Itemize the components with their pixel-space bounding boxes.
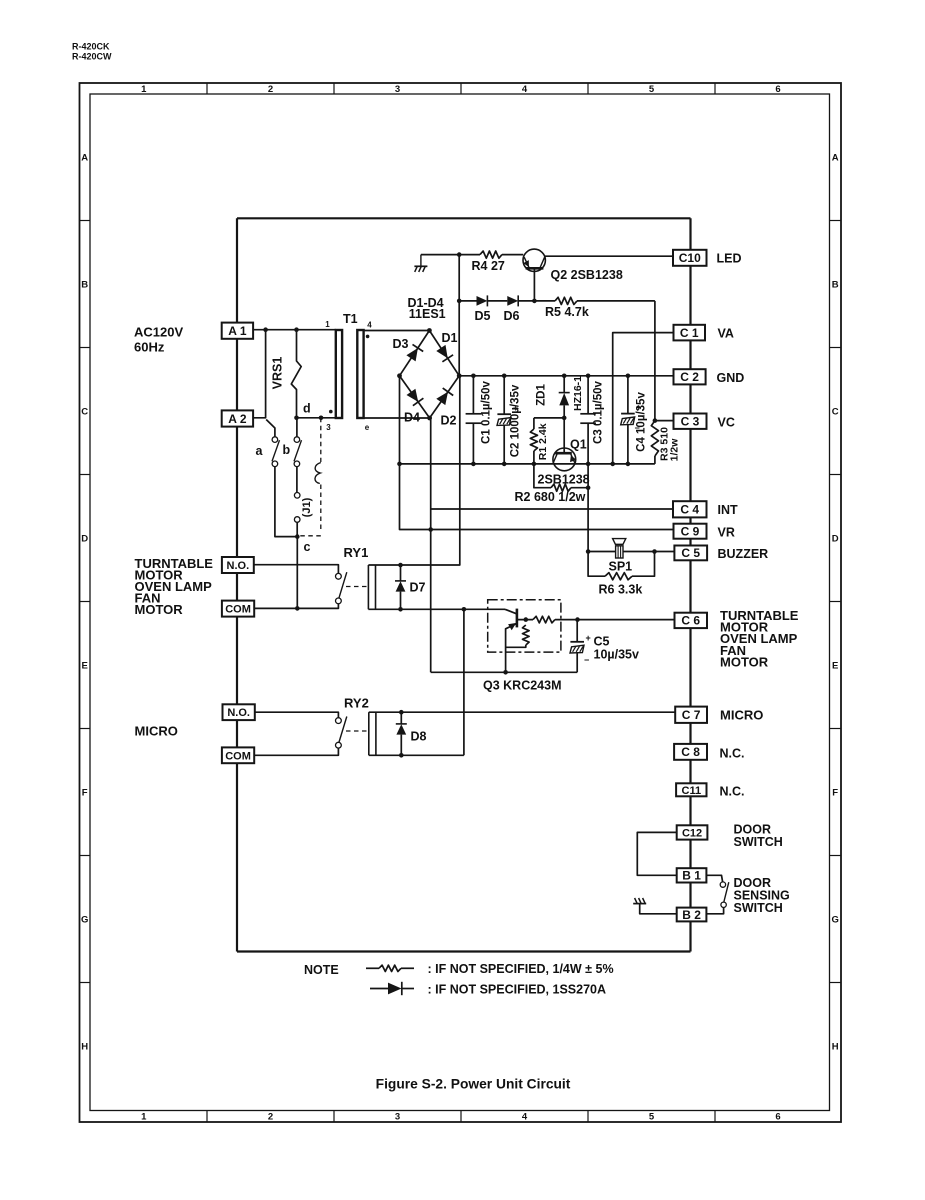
svg-text:SWITCH: SWITCH (734, 901, 783, 915)
svg-text:H: H (832, 1042, 839, 1053)
svg-text:A 1: A 1 (228, 324, 247, 338)
Q3 emitter arrow (508, 623, 516, 630)
connector C1 (674, 325, 706, 341)
resistor R4 (480, 251, 502, 258)
svg-text:C 8: C 8 (681, 745, 700, 759)
RY1 coil top edge (368, 376, 459, 565)
wire R2 left leg (534, 464, 551, 488)
svg-text:6: 6 (775, 84, 780, 95)
switch J1 upper circle (294, 493, 300, 499)
svg-text:C4 10µ/35v: C4 10µ/35v (636, 392, 648, 452)
node Q3 emitter on return line (503, 670, 508, 675)
svg-text:VC: VC (718, 416, 735, 430)
connector A2 (222, 410, 253, 426)
RY1 actuate dashed link (346, 586, 368, 588)
switch a upper circle (272, 437, 278, 443)
RY2 contact blade (339, 717, 347, 743)
connector B2 (677, 908, 707, 922)
wire riser bridge+ to D5/R4 lines (458, 255, 460, 376)
Q3 collector lead (505, 609, 517, 614)
node buzzer right (652, 549, 657, 554)
svg-text:COM: COM (225, 750, 251, 762)
svg-text:RY2: RY2 (344, 696, 369, 711)
wire R4 to Q2 (502, 254, 523, 256)
node C1 bottom (471, 462, 476, 467)
RY2 actuate dashed link (346, 730, 369, 732)
node - rail / bridge minus (397, 462, 402, 467)
switch b lower circle (294, 461, 300, 467)
svg-text:D2: D2 (441, 414, 457, 428)
svg-text:+: + (586, 633, 591, 643)
svg-text:N.O.: N.O. (227, 560, 250, 572)
T1 phasing dot primary (329, 410, 333, 414)
wire C6 line (578, 619, 675, 621)
svg-text:C3 0.1µ/50v: C3 0.1µ/50v (593, 380, 605, 443)
resistor R3 (651, 421, 658, 464)
resistor R6 (605, 573, 632, 580)
svg-text:: IF NOT SPECIFIED, 1SS270A: : IF NOT SPECIFIED, 1SS270A (428, 982, 607, 996)
RY2 coil frame left double line (369, 712, 376, 755)
R6 loop (588, 552, 654, 577)
wire switch b to J1 (296, 467, 298, 493)
svg-text:C5: C5 (594, 635, 610, 649)
svg-text:VR: VR (718, 525, 735, 539)
svg-text:: IF NOT SPECIFIED, 1/4W ± 5%: : IF NOT SPECIFIED, 1/4W ± 5% (428, 962, 614, 976)
svg-text:MOTOR: MOTOR (135, 602, 184, 617)
svg-text:B: B (81, 280, 88, 291)
connector C7 (675, 707, 707, 723)
connector C3 (674, 414, 707, 429)
capacitor C1 (466, 376, 482, 464)
buzzer SP1 (613, 539, 626, 558)
node dashed-link top (319, 416, 324, 421)
svg-text:C 4: C 4 (680, 503, 699, 517)
svg-text:3: 3 (326, 423, 331, 432)
connector N.O. (RY2) (223, 704, 255, 720)
svg-text:C1 0.1µ/50v: C1 0.1µ/50v (481, 380, 493, 443)
svg-text:C10: C10 (679, 251, 701, 265)
wire T1 pin3 line (297, 417, 336, 419)
svg-text:Figure S-2. Power Unit Circuit: Figure S-2. Power Unit Circuit (376, 1077, 571, 1092)
svg-text:C2 1000µ/35v: C2 1000µ/35v (510, 384, 522, 457)
node D7 anode (398, 607, 403, 612)
svg-text:2: 2 (268, 84, 273, 95)
RY2 contact moving circle (336, 742, 342, 748)
node C4 bottom (626, 462, 631, 467)
connector C8 (674, 744, 707, 760)
note diode symbol (370, 982, 414, 995)
svg-text:D8: D8 (411, 730, 427, 744)
schematic outline left edge (236, 218, 238, 951)
wire ground to B2 (640, 904, 677, 914)
node C1 top (471, 374, 476, 379)
frame row letters A-H (81, 153, 839, 1053)
node c-line on COM1 (295, 606, 300, 611)
wire A1 to T1 pin1 (253, 329, 336, 331)
svg-text:D1: D1 (442, 331, 458, 345)
svg-text:MICRO: MICRO (135, 724, 178, 739)
connector C10 (673, 250, 707, 266)
connector B1 (677, 868, 707, 882)
Q3 internal b-e resistor (506, 625, 529, 647)
node bridge left vertex (397, 373, 402, 378)
wire VC riser top (654, 301, 656, 421)
schematic outline top edge (237, 217, 691, 219)
wire RY2 coil bottom (369, 754, 464, 756)
svg-text:H: H (81, 1042, 88, 1053)
switch a blade (272, 440, 280, 461)
svg-text:C 5: C 5 (681, 546, 700, 560)
wire D6 to Q2 base node (518, 300, 534, 302)
switch J1 lower circle (294, 517, 300, 523)
svg-text:Q1: Q1 (570, 438, 587, 452)
node C3 bottom (586, 462, 591, 467)
wire T1 secondary top to bridge (364, 330, 430, 332)
svg-text:R-420CK: R-420CK (72, 42, 110, 52)
wire D5 to D6 (487, 300, 507, 302)
svg-text:B 1: B 1 (682, 869, 701, 883)
svg-text:6: 6 (775, 1112, 780, 1123)
connector C6 (675, 613, 708, 628)
svg-text:SP1: SP1 (609, 560, 633, 574)
connector C4 (673, 501, 707, 517)
svg-text:d: d (303, 402, 311, 416)
connector N.O. (RY1) (222, 557, 254, 573)
svg-text:C 3: C 3 (681, 415, 700, 429)
svg-text:2: 2 (268, 1112, 273, 1123)
svg-text:R5 4.7k: R5 4.7k (545, 305, 589, 319)
svg-text:1: 1 (141, 1112, 147, 1123)
node C4 top (626, 374, 631, 379)
svg-text:1/2w: 1/2w (669, 438, 681, 462)
wire + rail (GND) bridge to C2 (459, 375, 673, 377)
svg-text:3: 3 (395, 84, 400, 95)
svg-text:SWITCH: SWITCH (734, 835, 783, 849)
wire COM2 to RY2 contact (254, 748, 338, 755)
wire node to R4 (459, 254, 480, 256)
node ZD1 top (562, 374, 567, 379)
schematic outline right edge (689, 218, 691, 951)
node junction R4 rail / bridge+ riser (457, 252, 462, 257)
node c junction (295, 534, 300, 539)
wire RY2 coil top / C7 line (369, 711, 675, 713)
capacitor C3 (580, 376, 596, 464)
node buzzer left (586, 549, 591, 554)
capacitor C4 (621, 376, 635, 464)
Q3 base wire (517, 619, 533, 621)
switch b upper circle (294, 437, 300, 443)
svg-text:LED: LED (717, 251, 742, 265)
diode D6 (507, 296, 518, 306)
svg-text:10µ/35v: 10µ/35v (594, 648, 639, 662)
border frame outer (80, 83, 842, 1122)
bridge edge top-left (400, 331, 430, 376)
wire INT line (431, 508, 673, 510)
connector A1 (222, 323, 253, 339)
svg-text:C: C (832, 407, 839, 418)
wire VC to C3 box (655, 420, 674, 422)
diode D2 (436, 392, 448, 405)
node R2 / C3 riser (586, 485, 591, 490)
svg-text:(J1): (J1) (301, 497, 313, 517)
svg-text:D: D (81, 534, 88, 545)
wire C12 to B1 link (637, 832, 676, 875)
node C3 top (586, 374, 591, 379)
svg-text:D4: D4 (404, 411, 420, 425)
wire C3 riser to buzzer line (587, 464, 589, 552)
svg-text:C 6: C 6 (681, 614, 700, 628)
svg-text:T1: T1 (343, 312, 358, 326)
svg-text:b: b (283, 443, 291, 457)
node Q3 internal resistor top (524, 617, 529, 622)
svg-text:A 2: A 2 (228, 412, 247, 426)
svg-text:INT: INT (718, 503, 739, 517)
diode D1 (436, 345, 447, 358)
diode D3 (406, 348, 418, 361)
wire base node to R5 (534, 300, 555, 302)
node C2 bottom (502, 462, 507, 467)
svg-text:C12: C12 (682, 827, 702, 839)
svg-text:AC120V: AC120V (134, 325, 183, 340)
note resistor symbol (366, 965, 414, 971)
svg-text:N.O.: N.O. (227, 707, 250, 719)
node C5 / C6 line (575, 617, 580, 622)
node Q2 base / R5 (532, 299, 537, 304)
node VRS1 bottom / switch b (294, 416, 299, 421)
svg-text:ZD1: ZD1 (536, 384, 548, 406)
node bridge bottom vertex (427, 416, 432, 421)
connector COM (RY2) (222, 747, 254, 763)
wire bridge AC riser (INT/VR/C5-) (430, 418, 432, 672)
wire COM1 to RY1 contact (254, 604, 339, 609)
svg-text:COM: COM (225, 604, 251, 616)
zener diode ZD1 (559, 376, 570, 453)
wire N.O.2 to RY2 contact (255, 712, 339, 718)
transformer T1 secondary winding (357, 330, 363, 418)
svg-text:VRS1: VRS1 (271, 357, 285, 390)
node junction riser / D5 anode (457, 299, 462, 304)
svg-text:D3: D3 (393, 337, 409, 351)
svg-text:C 9: C 9 (681, 525, 700, 539)
svg-text:RY1: RY1 (344, 545, 369, 560)
switch b upper stub (296, 418, 298, 437)
wire Q3 base to C6 node (555, 619, 578, 621)
svg-text:R-420CW: R-420CW (72, 52, 112, 62)
svg-text:e: e (365, 423, 370, 432)
resistor R2 (551, 484, 571, 491)
transistor Q3 dash-dot box (488, 600, 561, 652)
node D8 anode (399, 753, 404, 758)
svg-text:60Hz: 60Hz (134, 339, 165, 354)
node C2 top (502, 374, 507, 379)
svg-text:VA: VA (718, 327, 734, 341)
svg-text:F: F (82, 788, 88, 799)
svg-text:A: A (832, 153, 839, 164)
label DOOR SENSING SWITCH (734, 876, 790, 915)
svg-text:MICRO: MICRO (720, 708, 763, 723)
dashed mechanical link (300, 418, 321, 536)
svg-text:HZ16-1: HZ16-1 (572, 376, 584, 411)
wire R2 to C3 riser (571, 487, 588, 489)
svg-text:1: 1 (325, 320, 330, 329)
RY1 contact blade (339, 572, 347, 598)
svg-text:Q3 KRC243M: Q3 KRC243M (483, 679, 562, 693)
label turntable block right (720, 608, 799, 669)
svg-text:R6 3.3k: R6 3.3k (599, 583, 643, 597)
svg-text:4: 4 (522, 1112, 528, 1123)
diode D8 (396, 712, 407, 755)
connector C12 (677, 825, 708, 839)
wire riser bottom corner to C5- (431, 671, 578, 673)
wire Q2 base down (533, 268, 535, 301)
node VC / R3 top (653, 418, 658, 423)
connector C11 (676, 783, 706, 796)
door sensing switch lower circle (721, 902, 726, 907)
svg-text:NOTE: NOTE (304, 963, 339, 977)
svg-text:N.C.: N.C. (720, 746, 745, 760)
svg-text:R1 2.4k: R1 2.4k (537, 423, 549, 460)
wire VA riser (613, 333, 674, 464)
svg-text:D5: D5 (475, 309, 491, 323)
node INT riser on VR line (428, 527, 433, 532)
transistor Q1 2SB1238 (553, 448, 577, 471)
node ZD1/R1/Q1 base (562, 416, 567, 421)
wire D5 line from riser (459, 300, 476, 302)
svg-text:G: G (81, 915, 88, 926)
diode D4 (407, 389, 419, 402)
switch b blade (294, 440, 302, 461)
svg-text:a: a (256, 444, 264, 458)
Q3 emitter lead (506, 623, 517, 672)
border frame inner (90, 94, 830, 1111)
T1 phasing dot secondary (366, 335, 370, 339)
svg-text:4: 4 (522, 84, 528, 95)
svg-text:Q2 2SB1238: Q2 2SB1238 (551, 268, 623, 282)
svg-text:G: G (832, 915, 839, 926)
svg-text:C11: C11 (682, 785, 702, 797)
Q3 internal base resistor (533, 616, 555, 623)
wire J1 to c node (296, 522, 298, 536)
svg-text:A: A (81, 153, 88, 164)
varistor VRS1 (291, 330, 301, 418)
svg-text:D: D (832, 534, 839, 545)
wire - rail caps bottom (400, 463, 655, 465)
transistor Q2 2SB1238 (523, 249, 545, 271)
svg-text:c: c (304, 540, 311, 554)
svg-text:R2 680 1/2w: R2 680 1/2w (515, 490, 586, 504)
door sensing switch blade (724, 882, 729, 902)
svg-text:3: 3 (395, 1112, 400, 1123)
diode D5 (477, 296, 488, 306)
wire N.O.1 to RY1 contact (254, 565, 339, 574)
RY1 contact fixed circle (336, 573, 342, 579)
schematic outline bottom edge (237, 950, 691, 952)
node bridge right vertex (457, 373, 462, 378)
svg-text:F: F (832, 788, 838, 799)
svg-text:E: E (82, 661, 88, 672)
wire switch a upper (266, 420, 275, 437)
svg-text:C: C (81, 407, 88, 418)
svg-text:4: 4 (367, 321, 372, 330)
node VRS1 top (294, 327, 299, 332)
wire R1 to ZD1 link (534, 417, 564, 419)
svg-text:R4 27: R4 27 (472, 259, 505, 273)
capacitor C2 (497, 376, 511, 464)
svg-text:2SB1238: 2SB1238 (538, 473, 590, 487)
node VA riser bottom (610, 462, 615, 467)
RY1 coil frame left double line (368, 565, 375, 609)
svg-text:E: E (832, 661, 838, 672)
node RY2 link riser top (462, 607, 467, 612)
svg-text:11ES1: 11ES1 (409, 307, 446, 321)
svg-text:C 1: C 1 (680, 326, 699, 340)
transformer T1 primary winding (336, 330, 342, 418)
frame column numbers 1-6 (141, 84, 780, 1122)
wire - branch to VR line (400, 376, 674, 530)
Q3 base bar (516, 609, 519, 628)
wire B1 to door sensing switch (706, 875, 722, 882)
wire c node to COM1 (296, 537, 298, 609)
RY1 contact moving circle (336, 598, 342, 604)
wire T1 secondary bottom to bridge (364, 417, 430, 419)
wire switch a to c node (275, 467, 297, 537)
connector C2 (674, 369, 706, 384)
ground (door sensing) (633, 898, 646, 904)
connector C9 (674, 524, 707, 539)
svg-text:D7: D7 (410, 581, 426, 595)
wire link riser RY1-RY2 (463, 609, 465, 755)
wire door sensing switch to B2 (706, 908, 723, 914)
resistor R5 (555, 297, 577, 304)
svg-text:1: 1 (141, 84, 147, 95)
svg-text:MOTOR: MOTOR (720, 654, 769, 669)
door sensing switch upper circle (720, 882, 725, 887)
wire A2 link vertical (253, 330, 266, 418)
svg-text:C 2: C 2 (680, 370, 699, 384)
node D8 cathode (399, 710, 404, 715)
ground (Q2 emitter rail) (414, 255, 427, 272)
connector C5 (674, 546, 707, 561)
switch a lower circle (272, 461, 278, 467)
node A1/A2 link (263, 327, 268, 332)
svg-text:N.C.: N.C. (720, 784, 745, 798)
svg-text:C 7: C 7 (682, 708, 701, 722)
connector COM (RY1) (222, 601, 254, 617)
wire buzzer line (588, 551, 674, 553)
wire R5 to VC riser (577, 300, 655, 302)
svg-text:D6: D6 (504, 309, 520, 323)
RY2 contact fixed circle (336, 718, 342, 724)
frame zone tick marks (80, 83, 842, 1122)
svg-text:5: 5 (649, 1112, 655, 1123)
diode D7 (395, 565, 406, 609)
svg-text:5: 5 (649, 84, 655, 95)
wire Q2 collector to C10 (545, 255, 673, 257)
svg-text:B: B (832, 280, 839, 291)
node R1/R2 bottom (532, 462, 537, 467)
label DOOR SWITCH (734, 823, 783, 849)
wire RY1 coil bottom to Q3 (368, 608, 505, 610)
bridge edge top-right (429, 331, 459, 376)
node bridge top vertex (427, 328, 432, 333)
capacitor C5 (570, 620, 584, 673)
svg-text:BUZZER: BUZZER (718, 547, 769, 561)
label turntable block left (135, 556, 214, 617)
svg-text:B 2: B 2 (682, 908, 701, 922)
svg-text:GND: GND (717, 371, 745, 385)
resistor R1 (530, 418, 537, 464)
bridge edge bottom-right (430, 376, 460, 418)
